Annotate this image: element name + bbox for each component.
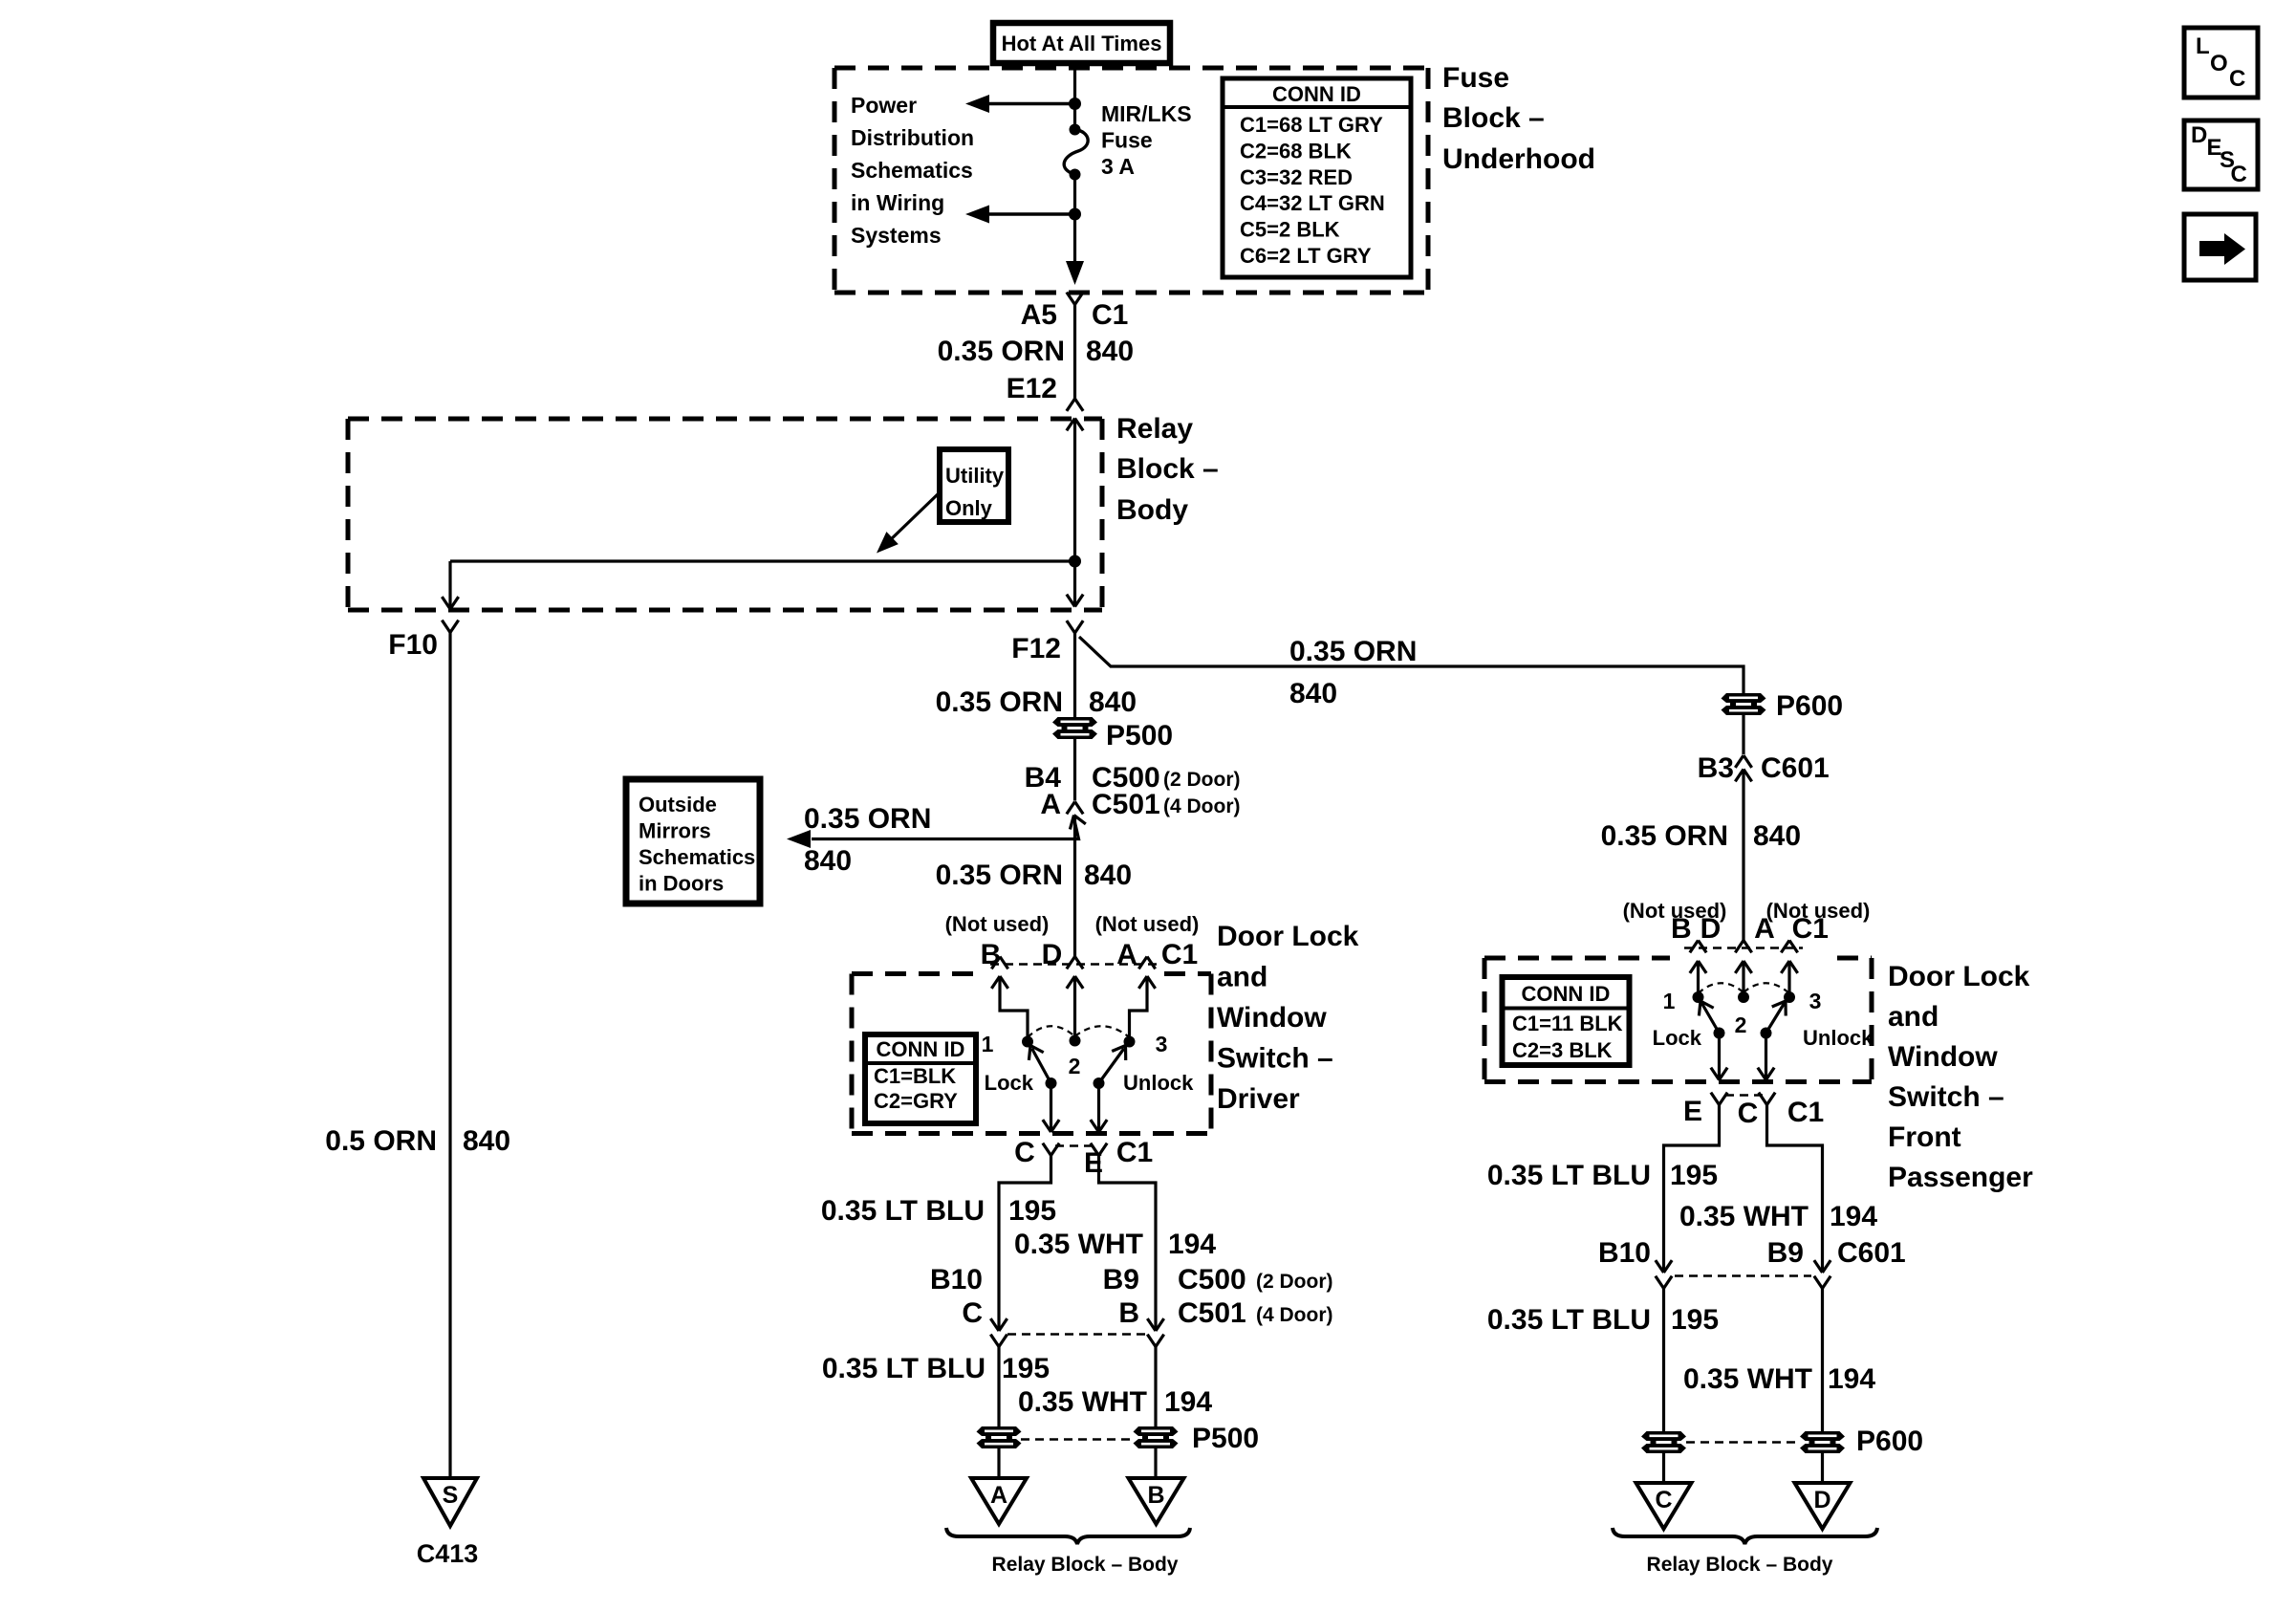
connector chevron passenger pin C — [1767, 1093, 1776, 1105]
svg-text:C500: C500 — [1178, 1264, 1246, 1295]
svg-text:in Wiring: in Wiring — [851, 190, 944, 215]
wire: P500 to terminal A — [997, 1448, 1000, 1478]
svg-text:C1: C1 — [1792, 913, 1829, 945]
node: junction dot to power distribution arrow 2 — [1069, 208, 1081, 221]
table: CONN ID passenger switch — [1503, 977, 1630, 1065]
svg-text:CONN ID: CONN ID — [1272, 82, 1361, 106]
svg-text:840: 840 — [1089, 686, 1137, 718]
terminal A triangle — [971, 1478, 1027, 1524]
svg-text:C: C — [1738, 1098, 1759, 1129]
connector chevron passenger pin E — [1720, 1093, 1728, 1105]
svg-text:Switch –: Switch – — [1217, 1043, 1333, 1075]
arrow: C500 crossing left (thin V down) — [999, 1318, 1007, 1331]
svg-text:in Doors: in Doors — [639, 872, 724, 896]
svg-text:194: 194 — [1828, 1363, 1875, 1395]
linkage: passenger switch dashed arcs — [1699, 983, 1744, 993]
connector chevron passenger pin A — [1781, 941, 1789, 953]
linkage: driver switch dashed arcs — [1028, 1026, 1075, 1037]
svg-text:C3=32 RED: C3=32 RED — [1240, 165, 1353, 189]
connector P600 grommet (top right) — [1722, 693, 1766, 703]
svg-text:Fuse: Fuse — [1101, 128, 1153, 153]
wire: passenger C to right leg — [1767, 1105, 1823, 1273]
wire: P600 to terminal C — [1662, 1452, 1665, 1483]
arrow: relay block internal exit (thin V down) — [1075, 595, 1084, 607]
box: Outside Mirrors Schematics in Doors — [626, 779, 760, 903]
svg-text:Window: Window — [1888, 1041, 1998, 1073]
svg-text:and: and — [1888, 1001, 1939, 1033]
svg-text:Unlock: Unlock — [1803, 1026, 1874, 1050]
svg-text:Hot At All Times: Hot At All Times — [1002, 32, 1162, 55]
svg-text:C4=32 LT GRN: C4=32 LT GRN — [1240, 191, 1385, 215]
svg-text:194: 194 — [1830, 1201, 1877, 1232]
connector chevron left below C500 — [999, 1335, 1007, 1347]
dashed box: Fuse Block - Underhood — [834, 66, 1428, 71]
svg-text:Switch –: Switch – — [1888, 1081, 2004, 1113]
svg-text:Relay Block – Body: Relay Block – Body — [992, 1554, 1179, 1576]
svg-text:195: 195 — [1671, 1304, 1719, 1336]
node: driver contact 1 — [1022, 1036, 1033, 1048]
svg-text:C: C — [1014, 1137, 1035, 1168]
connector C500/C501 chevron — [1067, 802, 1075, 815]
svg-text:C: C — [2229, 66, 2245, 92]
svg-text:0.35 LT BLU: 0.35 LT BLU — [1487, 1160, 1651, 1191]
connector P500 grommet right bottom — [1134, 1426, 1179, 1436]
svg-text:195: 195 — [1002, 1353, 1050, 1384]
svg-text:840: 840 — [1084, 860, 1132, 891]
svg-text:0.35 ORN: 0.35 ORN — [936, 686, 1063, 718]
wire: P600 to terminal D — [1821, 1452, 1824, 1483]
svg-text:B10: B10 — [930, 1264, 983, 1295]
svg-text:Schematics: Schematics — [851, 158, 973, 183]
svg-text:840: 840 — [1753, 820, 1801, 852]
svg-text:C1=11 BLK: C1=11 BLK — [1512, 1012, 1623, 1035]
arrow: to power distribution schematics (bottom) — [965, 206, 989, 224]
junction box: Hot At All Times power feed label — [993, 23, 1170, 63]
svg-text:D: D — [1813, 1487, 1830, 1513]
node: driver contact 3 — [1124, 1036, 1136, 1048]
svg-text:194: 194 — [1168, 1229, 1216, 1260]
arrow: utility only pointer — [887, 493, 939, 543]
wire: P500 to terminal B — [1154, 1448, 1157, 1478]
wire: outside mirrors branch — [812, 816, 1079, 839]
node: passenger contact 3 — [1784, 991, 1795, 1003]
arrow: driver switch pin A internal — [1138, 976, 1147, 989]
svg-text:C1=BLK: C1=BLK — [874, 1064, 956, 1088]
connector chevron right below C500 — [1156, 1335, 1164, 1347]
wire: relay block horizontal to F10 — [450, 559, 1075, 562]
svg-text:C1=68 LT GRY: C1=68 LT GRY — [1240, 113, 1383, 137]
wire: driver pin E to right leg — [1099, 1156, 1157, 1331]
svg-text:Lock: Lock — [985, 1071, 1034, 1095]
connector chevron passenger pin D (wire) — [1735, 941, 1744, 953]
svg-text:S: S — [443, 1482, 459, 1509]
svg-text:Mirrors: Mirrors — [639, 819, 711, 843]
connector F10 chevron — [450, 620, 459, 633]
node: driver contact 2 — [1070, 1035, 1081, 1047]
svg-text:C: C — [1655, 1487, 1672, 1513]
svg-text:1: 1 — [1663, 989, 1676, 1013]
svg-text:(Not used): (Not used) — [945, 912, 1050, 936]
svg-text:Driver: Driver — [1217, 1083, 1300, 1115]
arrow: C500 crossing right (thin V down) — [1156, 1318, 1164, 1331]
svg-text:C1: C1 — [1092, 299, 1128, 331]
dashed box: Relay Block - Body — [348, 417, 1102, 422]
connector chevron driver pin E — [1099, 1143, 1108, 1156]
connector C1 pin A5: chevron below fuse box — [1075, 293, 1084, 305]
connector C1 dashed line driver bottom — [1055, 1144, 1095, 1147]
svg-text:Passenger: Passenger — [1888, 1162, 2033, 1193]
svg-text:0.35 LT BLU: 0.35 LT BLU — [822, 1353, 986, 1384]
node: junction dot to power distribution arrow 1 — [1069, 98, 1081, 110]
wire: driver pin C to left leg — [999, 1156, 1051, 1331]
arrow: C601 crossing right (thin V down) — [1823, 1260, 1831, 1273]
svg-text:840: 840 — [804, 845, 852, 877]
wire: 0.35 ORN 840 circuit from fuse block — [1073, 305, 1076, 400]
svg-text:(Not used): (Not used) — [1095, 912, 1200, 936]
arrow: C601 crossing left (thin V down) — [1664, 1260, 1673, 1273]
svg-text:(4 Door): (4 Door) — [1163, 795, 1241, 817]
splice S triangle — [423, 1478, 477, 1526]
connector chevron passenger pin B — [1690, 941, 1699, 953]
svg-text:E12: E12 — [1007, 373, 1057, 404]
dashed box: Door Lock and Window Switch - Driver — [852, 971, 983, 976]
svg-text:0.35 LT BLU: 0.35 LT BLU — [1487, 1304, 1651, 1336]
svg-text:0.35 ORN: 0.35 ORN — [804, 803, 931, 835]
svg-text:Fuse: Fuse — [1442, 62, 1509, 94]
wire: passenger left leg to P600 — [1662, 1289, 1665, 1433]
svg-text:0.35 LT BLU: 0.35 LT BLU — [821, 1195, 985, 1227]
svg-text:E: E — [1683, 1096, 1702, 1127]
svg-text:Utility: Utility — [945, 464, 1005, 488]
table: CONN ID driver switch — [865, 1034, 976, 1123]
svg-text:(2 Door): (2 Door) — [1163, 769, 1241, 791]
wire: P500 to C500 connector — [1073, 739, 1076, 801]
wire: fuse output down to second branch — [1073, 175, 1076, 261]
svg-text:CONN ID: CONN ID — [1522, 982, 1611, 1006]
svg-text:Door Lock: Door Lock — [1217, 921, 1359, 952]
svg-text:C601: C601 — [1761, 752, 1830, 784]
wire: F12 down to P500 — [1073, 633, 1076, 717]
arrow: passenger pin A internal — [1781, 961, 1789, 973]
svg-text:A: A — [1116, 939, 1137, 970]
svg-text:C1: C1 — [1161, 939, 1198, 970]
svg-text:F10: F10 — [388, 629, 438, 661]
svg-text:Power: Power — [851, 93, 917, 118]
wire: relay block internal vertical — [1073, 419, 1076, 607]
wire: F10 drop inside relay block — [448, 561, 451, 609]
svg-text:C501: C501 — [1178, 1297, 1246, 1329]
connector C1 dashed line passenger top — [1684, 947, 1803, 949]
svg-text:P500: P500 — [1192, 1423, 1259, 1454]
svg-text:Outside: Outside — [639, 793, 717, 816]
svg-text:C501: C501 — [1092, 789, 1160, 820]
wire: P600 to B3 connector — [1742, 714, 1744, 754]
svg-text:and: and — [1217, 962, 1267, 993]
svg-text:B: B — [1118, 1297, 1139, 1329]
svg-text:B10: B10 — [1598, 1237, 1651, 1269]
svg-text:2: 2 — [1069, 1054, 1081, 1078]
node: relay block junction to F10 branch — [1069, 555, 1081, 568]
arrow: F10 exit (thin V down) — [450, 597, 459, 609]
svg-text:P600: P600 — [1856, 1426, 1923, 1457]
arrow: feed up into C601 (thin V) — [1735, 770, 1744, 782]
svg-text:Relay Block – Body: Relay Block – Body — [1647, 1554, 1833, 1576]
svg-text:C: C — [2231, 162, 2247, 187]
node: passenger contact 1 — [1693, 991, 1704, 1003]
svg-text:840: 840 — [1086, 336, 1134, 367]
svg-text:C1: C1 — [1787, 1097, 1824, 1128]
arrow: passenger pin D internal — [1735, 961, 1744, 973]
wire: 0.5 ORN 840 down to splice S — [448, 633, 451, 1479]
connector chevron driver pin C — [1051, 1143, 1060, 1156]
svg-text:195: 195 — [1008, 1195, 1056, 1227]
switch blade: passenger Unlock — [1761, 1028, 1772, 1039]
dashed box: Door Lock and Window Switch - Front Passenger — [1484, 956, 1670, 961]
svg-text:0.35 ORN: 0.35 ORN — [1601, 820, 1728, 852]
connector C1 dashed line passenger bottom — [1725, 1094, 1764, 1097]
svg-text:C: C — [962, 1297, 983, 1329]
svg-text:Lock: Lock — [1653, 1026, 1702, 1050]
svg-text:C601: C601 — [1837, 1237, 1906, 1269]
icon: next-page arrow box — [2184, 214, 2256, 280]
svg-text:0.35 WHT: 0.35 WHT — [1679, 1201, 1809, 1232]
svg-text:CONN ID: CONN ID — [877, 1037, 965, 1061]
svg-text:P500: P500 — [1106, 720, 1173, 751]
connector P500 dashed link — [1021, 1438, 1132, 1441]
arrow: driver switch pin B internal — [991, 976, 1000, 989]
brace: relay block body left — [946, 1528, 1190, 1544]
svg-text:Front: Front — [1888, 1121, 1961, 1153]
switch blade: driver Lock — [1046, 1078, 1057, 1089]
connector P600 grommet left bottom — [1641, 1431, 1686, 1441]
svg-text:0.35 ORN: 0.35 ORN — [1289, 636, 1417, 667]
svg-text:Door Lock: Door Lock — [1888, 961, 2030, 992]
svg-text:C1: C1 — [1116, 1137, 1153, 1168]
wire: passenger right leg to P600 — [1821, 1289, 1824, 1433]
svg-text:A: A — [990, 1482, 1007, 1509]
connector C500/C501 dashed line bottom — [1007, 1333, 1148, 1336]
svg-text:B: B — [1671, 913, 1692, 945]
svg-text:A5: A5 — [1021, 299, 1057, 331]
svg-text:Block –: Block – — [1116, 453, 1219, 485]
fuse F: MIR/LKS Fuse 3 A element — [1070, 124, 1081, 136]
svg-text:840: 840 — [463, 1125, 510, 1157]
connector chevron pin D (wire) — [1067, 957, 1075, 969]
wire: battery feed from Hot At All Times into fuse block — [1073, 61, 1076, 130]
svg-text:(4 Door): (4 Door) — [1256, 1304, 1333, 1326]
wire: left leg to P500 bottom — [997, 1347, 1000, 1427]
wire: C501 down to driver switch — [1073, 816, 1076, 957]
svg-text:F12: F12 — [1011, 633, 1061, 664]
svg-text:0.35 WHT: 0.35 WHT — [1683, 1363, 1812, 1395]
connector P500 grommet (middle) — [1052, 717, 1097, 727]
svg-text:1: 1 — [982, 1032, 994, 1056]
svg-text:B: B — [1147, 1482, 1164, 1509]
svg-text:0.35 WHT: 0.35 WHT — [1018, 1386, 1147, 1418]
svg-text:Relay: Relay — [1116, 413, 1193, 445]
svg-text:Unlock: Unlock — [1123, 1071, 1194, 1095]
svg-text:195: 195 — [1670, 1160, 1718, 1191]
svg-text:0.5 ORN: 0.5 ORN — [325, 1125, 437, 1157]
switch blade: passenger Lock — [1714, 1028, 1725, 1039]
terminal C triangle — [1636, 1483, 1692, 1529]
connector chevron right below C601 — [1823, 1276, 1831, 1289]
svg-text:C2=68 BLK: C2=68 BLK — [1240, 139, 1352, 163]
svg-text:C413: C413 — [417, 1539, 479, 1568]
svg-text:(2 Door): (2 Door) — [1256, 1271, 1333, 1293]
wire: right leg to P500 bottom — [1154, 1347, 1157, 1427]
svg-text:O: O — [2210, 51, 2228, 76]
connector B3/C601 chevron — [1735, 755, 1744, 768]
connector chevron pin B — [991, 957, 1000, 969]
connector F12 chevron — [1075, 620, 1084, 633]
arrow: to power distribution schematics (top) — [965, 95, 989, 113]
svg-text:MIR/LKS: MIR/LKS — [1101, 101, 1192, 126]
svg-text:D: D — [1700, 913, 1722, 945]
svg-text:2: 2 — [1735, 1012, 1747, 1037]
svg-text:C6=2 LT GRY: C6=2 LT GRY — [1240, 244, 1372, 268]
arrow: passenger pin B internal — [1690, 961, 1699, 973]
svg-text:0.35 WHT: 0.35 WHT — [1014, 1229, 1143, 1260]
svg-text:Only: Only — [945, 496, 993, 520]
connector C1 dashed line driver top — [990, 963, 1159, 966]
connector P500 grommet left bottom — [977, 1426, 1022, 1436]
svg-text:194: 194 — [1164, 1386, 1212, 1418]
table: CONN ID fuse block underhood — [1223, 78, 1411, 277]
svg-text:C2=GRY: C2=GRY — [874, 1089, 958, 1113]
svg-text:L: L — [2196, 33, 2210, 59]
svg-text:B9: B9 — [1767, 1237, 1804, 1269]
arrow: feed up into C501 (thin V) — [1070, 816, 1073, 830]
connector chevron left below C601 — [1664, 1276, 1673, 1289]
brace: relay block body right — [1613, 1528, 1877, 1544]
wire: F12 branch diagonal to right branch — [1079, 637, 1744, 694]
connector chevron pin A — [1138, 957, 1147, 969]
svg-text:B: B — [981, 939, 1002, 970]
connector P600 dashed link — [1686, 1441, 1801, 1444]
arrow: driver switch pin D internal — [1067, 976, 1075, 989]
icon: LOC box — [2184, 28, 2258, 98]
svg-text:3 A: 3 A — [1101, 154, 1135, 179]
svg-text:B9: B9 — [1103, 1264, 1139, 1295]
svg-text:Body: Body — [1116, 494, 1188, 526]
terminal D triangle — [1795, 1483, 1851, 1529]
connector P600 grommet right bottom — [1800, 1431, 1845, 1441]
connector C601 dashed line bottom — [1675, 1274, 1811, 1277]
svg-text:A: A — [1754, 913, 1775, 945]
svg-text:A: A — [1040, 789, 1061, 820]
icon: DESC box — [2184, 120, 2258, 189]
svg-text:D: D — [1042, 939, 1063, 970]
box: Utility Only note — [940, 449, 1008, 522]
arrow: to outside mirrors schematics — [787, 830, 811, 848]
svg-text:Systems: Systems — [851, 223, 942, 248]
arrow: fuse block output arrowhead at box edge — [1073, 260, 1076, 264]
wire: passenger E to left leg — [1664, 1105, 1720, 1273]
svg-text:C2=3 BLK: C2=3 BLK — [1512, 1038, 1613, 1062]
wire: C601 down to passenger switch — [1742, 770, 1744, 941]
terminal B triangle — [1129, 1478, 1184, 1524]
svg-text:B3: B3 — [1698, 752, 1734, 784]
switch blade: driver Unlock — [1094, 1078, 1105, 1089]
svg-text:Distribution: Distribution — [851, 125, 974, 150]
svg-text:D: D — [2191, 122, 2207, 148]
svg-text:0.35 ORN: 0.35 ORN — [938, 336, 1065, 367]
svg-text:Window: Window — [1217, 1002, 1327, 1034]
svg-text:Schematics: Schematics — [639, 845, 755, 869]
svg-text:3: 3 — [1156, 1032, 1168, 1056]
arrow: relay block internal entry (thin V up) — [1067, 419, 1075, 431]
node: passenger contact 2 — [1738, 991, 1749, 1003]
svg-text:Underhood: Underhood — [1442, 143, 1595, 175]
svg-text:C5=2 BLK: C5=2 BLK — [1240, 218, 1340, 242]
svg-text:3: 3 — [1809, 989, 1822, 1013]
svg-text:Block –: Block – — [1442, 102, 1545, 134]
connector chevron into relay block E12 — [1067, 399, 1075, 411]
svg-text:0.35 ORN: 0.35 ORN — [936, 860, 1063, 891]
svg-text:840: 840 — [1289, 678, 1337, 709]
wire: power distribution branch 2 — [986, 212, 1075, 216]
wire: power distribution branch 1 — [986, 102, 1075, 106]
svg-text:P600: P600 — [1776, 690, 1843, 722]
